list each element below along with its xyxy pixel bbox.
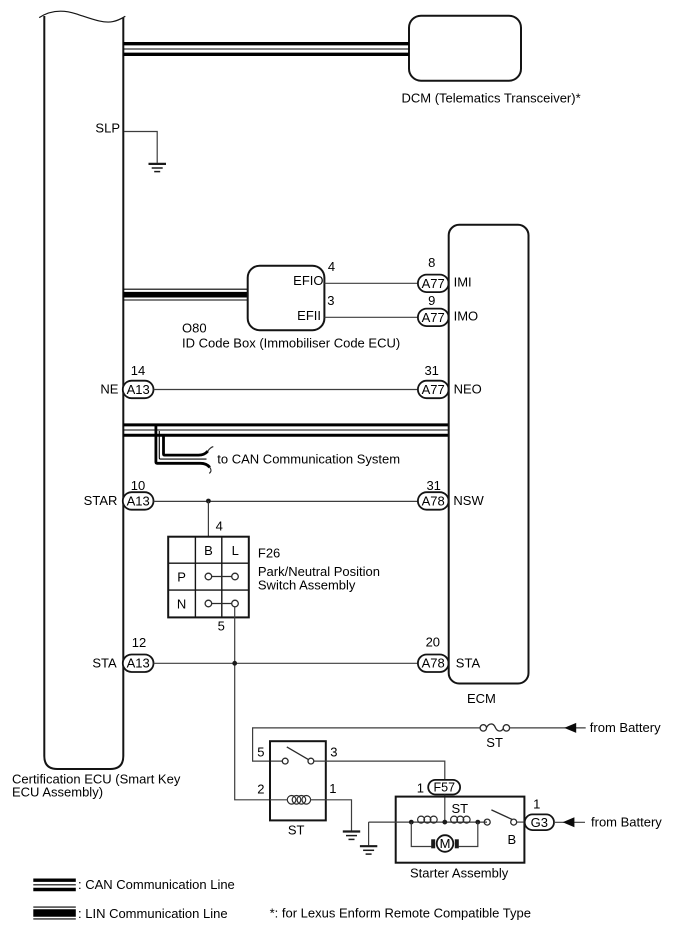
svg-text:: CAN Communication Line: : CAN Communication Line (78, 877, 235, 892)
svg-text:9: 9 (428, 293, 435, 308)
svg-text:M: M (440, 836, 451, 851)
junction node starter center (442, 820, 447, 825)
wire relay pin 1 to ground (326, 800, 352, 831)
ID Code Box O80 (248, 266, 325, 331)
junction node (STAR / F26) (206, 499, 211, 504)
svg-text:A77: A77 (422, 310, 445, 325)
CAN trunk bus (to ECM) (123, 425, 448, 435)
wire SLP to ground (124, 132, 157, 163)
motor branch wires (411, 822, 431, 846)
svg-text:B: B (508, 832, 517, 847)
svg-text:5: 5 (218, 619, 225, 634)
svg-text:F57: F57 (434, 781, 456, 795)
svg-text:O80: O80 (182, 320, 207, 335)
svg-text:STA: STA (92, 655, 117, 670)
svg-text:5: 5 (257, 745, 264, 760)
svg-text:ID Code Box (Immobiliser Code: ID Code Box (Immobiliser Code ECU) (182, 335, 400, 350)
svg-text:Switch Assembly: Switch Assembly (258, 578, 356, 593)
connector A78 (STA) (418, 655, 449, 673)
break squiggle at branch end (208, 447, 214, 474)
svg-text:N: N (177, 596, 186, 611)
wire fuse to battery arrow (510, 727, 586, 729)
Certification ECU box (Smart Key ECU Assembly) (39, 11, 125, 769)
CAN branch bus to CAN communication system (156, 426, 210, 467)
svg-text:A13: A13 (127, 382, 150, 397)
junction node (STA wire) (232, 661, 237, 666)
relay ST box (270, 741, 326, 820)
svg-text:EFIO: EFIO (293, 273, 323, 288)
svg-text:NSW: NSW (453, 493, 484, 508)
svg-text:20: 20 (426, 635, 440, 650)
connector A77 (IMI) (418, 275, 449, 293)
svg-text:A77: A77 (422, 276, 445, 291)
junction node starter right (475, 820, 480, 825)
solenoid coil 1 (418, 816, 438, 823)
junction node starter left (409, 820, 414, 825)
svg-text:P: P (177, 569, 186, 584)
switch contact N row (205, 600, 238, 607)
connector G3 (525, 814, 554, 830)
legend CAN line symbol (33, 880, 76, 889)
svg-text:Starter Assembly: Starter Assembly (410, 866, 509, 881)
svg-text:ST: ST (452, 801, 469, 816)
svg-text:from Battery: from Battery (590, 720, 661, 735)
arrow from battery (bottom) (563, 817, 575, 827)
svg-text:STAR: STAR (84, 493, 118, 508)
svg-text:B: B (204, 543, 213, 558)
F26 Park/Neutral Position Switch Assembly box (168, 537, 249, 618)
switch contact P row (205, 573, 238, 580)
svg-text:10: 10 (131, 478, 145, 493)
DCM (Telematics Transceiver) box (409, 16, 521, 81)
legend LIN line symbol (33, 907, 76, 919)
svg-text:31: 31 (426, 478, 440, 493)
wire F26 pin 5 down to relay pin 2 (235, 607, 270, 800)
wire G3 to battery arrow (554, 821, 585, 823)
wire starter main line (369, 821, 487, 823)
wire F57 into starter box (444, 795, 446, 823)
wire STA to STA (154, 662, 418, 664)
wire EFIO to A77 (324, 282, 418, 284)
svg-text:to CAN Communication System: to CAN Communication System (217, 452, 400, 467)
svg-text:14: 14 (131, 363, 145, 378)
CAN bus wire to DCM (123, 44, 409, 55)
starter switch contacts (484, 810, 517, 825)
wire EFII to A77 (324, 316, 418, 318)
connector A13 (NE) (123, 381, 154, 399)
connector A13 (STA) (123, 655, 154, 673)
ground (relay) (343, 832, 360, 840)
svg-text:A13: A13 (127, 493, 150, 508)
svg-text:3: 3 (327, 293, 334, 308)
svg-text:ST: ST (288, 822, 305, 837)
svg-text:F26: F26 (258, 546, 280, 561)
svg-text:SLP: SLP (95, 121, 120, 136)
wire relay pin 3 to F57 (314, 761, 445, 780)
svg-text:8: 8 (428, 255, 435, 270)
arrow from battery (top) (564, 723, 576, 733)
relay coil (287, 796, 310, 805)
motor M (starter motor) (431, 839, 435, 848)
wire relay coil internal (270, 799, 326, 801)
wire STAR to NSW (154, 500, 418, 502)
LIN bus wire to ID code box (123, 289, 247, 300)
svg-text:1: 1 (417, 780, 424, 795)
svg-text:NEO: NEO (454, 382, 482, 397)
ground (SLP) (149, 164, 167, 172)
svg-text:A13: A13 (127, 656, 150, 671)
svg-text:ECM: ECM (467, 691, 496, 706)
fuse ST (480, 724, 510, 731)
svg-text:IMO: IMO (454, 309, 479, 324)
svg-text:ECU Assembly): ECU Assembly) (12, 785, 103, 800)
svg-text:*: for Lexus Enform Remote Com: *: for Lexus Enform Remote Compatible Ty… (270, 906, 531, 921)
connector A13 (STAR) (123, 492, 154, 510)
connector A77 (NEO) (418, 381, 449, 399)
svg-text:12: 12 (132, 635, 146, 650)
svg-text:A78: A78 (422, 656, 445, 671)
svg-text:4: 4 (328, 259, 335, 274)
starter assembly box (396, 797, 525, 863)
svg-text:A77: A77 (422, 382, 445, 397)
svg-text:L: L (232, 543, 239, 558)
svg-text:A78: A78 (422, 493, 445, 508)
svg-text:EFII: EFII (297, 308, 321, 323)
svg-text:STA: STA (456, 656, 481, 671)
svg-text:DCM (Telematics Transceiver)*: DCM (Telematics Transceiver)* (402, 91, 581, 106)
svg-text:ST: ST (486, 735, 503, 750)
svg-text:NE: NE (100, 381, 118, 396)
svg-text:from Battery: from Battery (591, 815, 662, 830)
wire junction to F26 pin 4 (207, 501, 209, 537)
connector F57 (428, 780, 460, 795)
svg-text:G3: G3 (531, 815, 548, 830)
solenoid coil 2 (451, 816, 471, 823)
svg-text:1: 1 (533, 797, 540, 812)
svg-text:1: 1 (329, 781, 336, 796)
svg-text:3: 3 (330, 745, 337, 760)
connector A78 (NSW) (418, 492, 449, 510)
svg-text:: LIN Communication Line: : LIN Communication Line (78, 906, 228, 921)
svg-text:31: 31 (424, 363, 438, 378)
relay switch contacts (282, 747, 313, 764)
svg-text:IMI: IMI (454, 274, 472, 289)
wire battery feed to relay pin 5 (253, 728, 481, 761)
wire switch to G3 (517, 821, 525, 823)
svg-text:4: 4 (216, 519, 223, 534)
ground (starter) (368, 822, 370, 845)
svg-text:2: 2 (257, 782, 264, 797)
ECM box (449, 225, 529, 684)
connector A77 (IMO) (418, 309, 449, 327)
wire NE to NEO (154, 389, 418, 391)
